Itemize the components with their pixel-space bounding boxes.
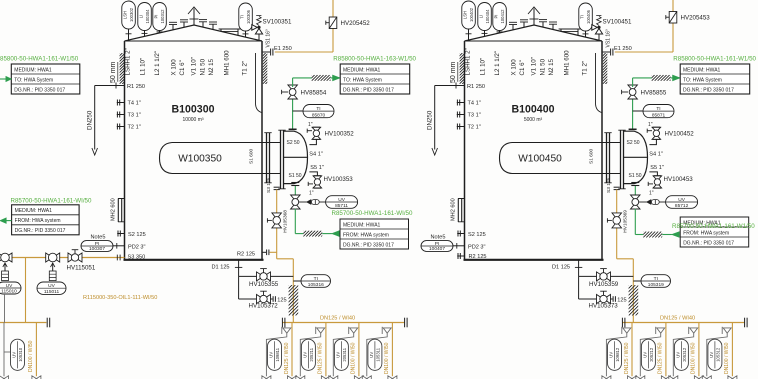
svg-text:100302: 100302: [129, 7, 134, 22]
svg-text:TI: TI: [580, 15, 585, 19]
penetration hatching on drop: [598, 285, 666, 316]
svg-text:L1 10": L1 10": [480, 58, 487, 76]
svg-text:125: 125: [617, 298, 626, 304]
svg-text:DN125 / WI50: DN125 / WI50: [318, 342, 324, 374]
pressure indicator PI 100412: [493, 3, 507, 31]
drain drop UV 109811: [291, 323, 293, 377]
svg-text:R2 125: R2 125: [237, 252, 255, 258]
oil drop line: [276, 190, 278, 259]
svg-text:VS1 16°: VS1 16°: [265, 29, 271, 47]
svg-text:R85700-50-HWA1-161-W1/50: R85700-50-HWA1-161-W1/50: [672, 223, 755, 230]
svg-text:R2 125: R2 125: [469, 254, 487, 260]
svg-text:LSHH1 2": LSHH1 2": [465, 48, 472, 75]
valve HV105359: [579, 275, 597, 277]
drain valve: [0, 376, 9, 379]
drain valve: [669, 376, 678, 379]
nozzle T4: [457, 102, 465, 104]
safety valve SV100351: [258, 34, 260, 40]
nozzle T2: [457, 126, 465, 128]
temperature indicator TI 105319: [633, 280, 641, 282]
svg-text:MH2 600: MH2 600: [451, 198, 457, 221]
valve HV105372 with 125 flange: [238, 276, 240, 299]
drain valve: [354, 376, 363, 379]
svg-text:HV85855: HV85855: [641, 90, 667, 97]
penetration hatching: [306, 75, 336, 81]
roof nozzle stub: [172, 25, 174, 30]
hand valve HV115051: [68, 253, 82, 262]
shutoff valve bubble UV 85711: [326, 196, 358, 209]
valve HV205452: [329, 17, 337, 29]
svg-text:TI: TI: [314, 276, 318, 282]
roof nozzle stub: [212, 24, 214, 29]
svg-text:S2 125: S2 125: [468, 232, 486, 238]
nozzle S1 50 feed (green): [291, 182, 299, 184]
level indicator LI 100404: [478, 3, 492, 31]
svg-text:100307: 100307: [89, 246, 105, 252]
svg-text:T4 1": T4 1": [468, 101, 481, 107]
svg-text:T1 2": T1 2": [581, 61, 588, 76]
svg-text:S1 50: S1 50: [289, 173, 302, 179]
svg-text:MH2 600: MH2 600: [111, 198, 117, 221]
svg-text:85712: 85712: [675, 203, 689, 209]
svg-text:S1 50: S1 50: [629, 173, 642, 179]
svg-text:TI: TI: [654, 276, 658, 282]
svg-text:10000 m³: 10000 m³: [182, 117, 203, 123]
drain line with UV 105310: [3, 323, 5, 377]
svg-text:DN250: DN250: [86, 110, 93, 130]
svg-text:105316: 105316: [308, 282, 324, 288]
svg-text:DN125 / WI40: DN125 / WI40: [660, 316, 695, 322]
svg-text:N2 15: N2 15: [208, 58, 215, 75]
svg-text:205311: 205311: [342, 347, 347, 361]
drain valve: [628, 376, 637, 379]
svg-text:R85700-50-HWA1-161-WI/50: R85700-50-HWA1-161-WI/50: [332, 210, 413, 217]
svg-text:T2 1": T2 1": [468, 125, 481, 131]
svg-text:DN100 / WI50: DN100 / WI50: [384, 342, 390, 374]
svg-text:DN125 / WI50: DN125 / WI50: [624, 342, 630, 374]
HWA supply line (green): [294, 209, 296, 234]
svg-text:D1 125: D1 125: [212, 264, 230, 270]
svg-text:HV100453: HV100453: [664, 176, 694, 183]
liner hatching left + 50 mm note: [429, 53, 494, 84]
penetration hatching: [297, 231, 327, 237]
svg-text:R115000-350-OIL1-111-WI/50: R115000-350-OIL1-111-WI/50: [83, 295, 157, 301]
nozzle R1 250 with DN250 line: [95, 85, 125, 87]
svg-text:SV100451: SV100451: [603, 19, 632, 26]
svg-text:TI: TI: [656, 106, 660, 112]
svg-text:DN100 / WI50: DN100 / WI50: [691, 342, 697, 374]
svg-text:R85800-50-HWA1-163-W1/50: R85800-50-HWA1-163-W1/50: [333, 56, 416, 63]
roof nozzle stub: [552, 24, 554, 29]
svg-text:HV105355: HV105355: [249, 281, 279, 288]
vent stack with open vent arrow: [533, 9, 535, 26]
svg-text:125: 125: [277, 298, 286, 304]
valve HV105355: [239, 275, 257, 277]
svg-text:R1 250: R1 250: [467, 84, 485, 90]
drain valve: [262, 376, 271, 379]
tank B100300 roof: [125, 25, 263, 41]
svg-text:HV85854: HV85854: [301, 90, 327, 97]
svg-text:T4 1": T4 1": [128, 101, 141, 107]
svg-text:MEDIUM: HWA1: MEDIUM: HWA1: [343, 67, 381, 73]
svg-text:FROM: HWA system: FROM: HWA system: [15, 218, 61, 224]
svg-text:PD2 3": PD2 3": [128, 244, 146, 250]
vapour line to HV205452: [275, 51, 333, 53]
svg-text:UV: UV: [675, 352, 680, 358]
exchanger head: [624, 131, 648, 183]
drain valve: [321, 376, 330, 379]
svg-text:DN125 / WI50: DN125 / WI50: [284, 342, 290, 374]
svg-text:1": 1": [648, 122, 653, 128]
nozzle T3: [117, 114, 125, 116]
svg-text:X 100: X 100: [171, 59, 178, 76]
svg-text:S1 600: S1 600: [589, 148, 595, 164]
svg-text:100306: 100306: [246, 9, 251, 24]
flow arrow into TO box: [333, 75, 340, 81]
svg-text:UV: UV: [642, 352, 647, 358]
exchanger head flange: [621, 131, 624, 189]
nozzle S2 125: [117, 233, 124, 235]
svg-text:109811: 109811: [275, 347, 280, 361]
svg-text:S4 1": S4 1": [649, 151, 663, 157]
roof nozzle stub: [542, 22, 544, 27]
svg-text:5000 m³: 5000 m³: [524, 117, 543, 123]
drain drop with valve: [35, 323, 37, 377]
svg-text:100412: 100412: [500, 9, 505, 24]
svg-text:205211: 205211: [309, 347, 314, 361]
drain valve: [362, 376, 371, 379]
svg-text:L2 1 1/2": L2 1 1/2": [154, 51, 161, 76]
exchanger head: [284, 131, 308, 183]
svg-text:85711: 85711: [335, 203, 348, 209]
svg-text:DG.NR.: PID 3350 017: DG.NR.: PID 3350 017: [15, 228, 66, 234]
valve UV 85712 inlet valve: [631, 195, 641, 209]
svg-text:S5 1": S5 1": [310, 165, 324, 171]
svg-text:1": 1": [308, 122, 313, 128]
svg-text:HV100352: HV100352: [325, 131, 355, 138]
svg-text:DN125 / WI50: DN125 / WI50: [658, 342, 664, 374]
valve HV100452 at S4: [649, 139, 656, 145]
svg-text:L1 10": L1 10": [140, 58, 147, 76]
pressure indicator PI 100312: [153, 3, 167, 31]
svg-text:DG.NR.: PID 3350 017: DG.NR.: PID 3350 017: [343, 87, 394, 93]
valve HV100352 at S4: [309, 139, 316, 145]
svg-text:UV: UV: [678, 197, 685, 203]
vapour line to HV205453: [615, 51, 673, 53]
svg-text:HV115051: HV115051: [67, 265, 96, 272]
valve HV85855 on HWA return: [632, 97, 634, 128]
svg-text:MEDIUM: HWA1: MEDIUM: HWA1: [14, 67, 52, 73]
svg-text:T3 1": T3 1": [468, 113, 481, 119]
svg-text:85800-50-HWA1-161-W1/50: 85800-50-HWA1-161-W1/50: [0, 56, 79, 63]
svg-text:S3 125: S3 125: [606, 177, 612, 193]
svg-text:FROM: HWA system: FROM: HWA system: [683, 230, 729, 236]
svg-text:DG.NR.: PID 3350 017: DG.NR.: PID 3350 017: [683, 87, 734, 93]
svg-text:L2 1 1/2": L2 1 1/2": [494, 51, 501, 76]
TO HWA System box: [340, 64, 410, 94]
svg-text:DN100 / WI50: DN100 / WI50: [28, 340, 34, 372]
svg-text:UV: UV: [335, 352, 340, 358]
drain drop UV 205211: [325, 323, 327, 377]
svg-text:D1 125: D1 125: [552, 264, 570, 270]
svg-text:E1 250: E1 250: [614, 46, 632, 52]
svg-text:MH1 600: MH1 600: [564, 50, 571, 76]
svg-text:MEDIUM: HWA1: MEDIUM: HWA1: [343, 222, 381, 228]
manhole MH1 600 on roof: [559, 29, 581, 35]
heat exchanger W100450 shell: [512, 143, 621, 174]
shutoff valve bubble UV 115011: [37, 282, 66, 294]
flow arrow out of FROM box: [332, 231, 339, 237]
svg-text:HV205452: HV205452: [341, 20, 371, 27]
tank B100400 roof: [465, 25, 603, 41]
level switch LSH 100302: [122, 1, 136, 29]
nozzle S3 350 with oil line: [0, 257, 125, 259]
temperature indicator TI 85870: [293, 110, 303, 112]
drain valve: [32, 376, 41, 379]
svg-text:S2 125: S2 125: [128, 232, 146, 238]
flow arrow into TO box: [673, 75, 680, 81]
temperature indicator TI 100306: [239, 3, 253, 31]
svg-text:R85700-50-HWA1-161-WI/50: R85700-50-HWA1-161-WI/50: [11, 197, 92, 204]
level indicator LI 100304: [138, 3, 152, 31]
HWA supply line (green): [634, 209, 636, 235]
svg-text:85871: 85871: [652, 112, 666, 118]
svg-text:V1 10": V1 10": [531, 57, 538, 75]
drain valve: [636, 376, 645, 379]
drain drop UV 105312: [731, 323, 733, 377]
roof nozzle stub: [523, 22, 525, 27]
svg-text:S3 125: S3 125: [266, 177, 272, 193]
svg-text:UV: UV: [709, 352, 714, 358]
svg-text:TO: HWA System: TO: HWA System: [683, 77, 722, 83]
FROM HWA system box (left edge): [12, 205, 80, 235]
drain drop UV 205312: [698, 323, 700, 377]
svg-text:TO: HWA System: TO: HWA System: [343, 77, 382, 83]
svg-text:109812: 109812: [615, 347, 620, 362]
drain valve: [329, 376, 338, 379]
svg-text:HV105372: HV105372: [249, 303, 279, 310]
penetration hatching: [646, 75, 676, 81]
svg-text:R85800-50-HWA1-161-W1/50: R85800-50-HWA1-161-W1/50: [673, 56, 756, 63]
svg-text:MEDIUM: HWA1: MEDIUM: HWA1: [15, 208, 53, 214]
svg-text:T3 1": T3 1": [128, 113, 141, 119]
drain header DN125 / WI40: [622, 322, 744, 324]
svg-text:S4 1": S4 1": [309, 151, 323, 157]
nozzle R1 250 with DN250 line: [435, 85, 465, 87]
svg-text:105319: 105319: [648, 282, 664, 288]
svg-text:X 100: X 100: [511, 59, 518, 76]
penetration hatching on drop: [258, 285, 326, 316]
svg-text:100402: 100402: [469, 7, 474, 22]
svg-text:LSHH1 2": LSHH1 2": [125, 48, 132, 75]
drain valve: [702, 376, 711, 379]
actuator for UV 115010: [4, 263, 6, 271]
svg-text:UV: UV: [48, 283, 55, 289]
svg-text:N2 15: N2 15: [548, 58, 555, 75]
oil drop line: [616, 190, 618, 259]
drain valve: [296, 376, 305, 379]
svg-text:85870: 85870: [312, 112, 326, 118]
svg-text:DG.NR.: PID 3350 017: DG.NR.: PID 3350 017: [343, 242, 394, 248]
drain valve: [288, 376, 297, 379]
svg-text:SV100351: SV100351: [263, 19, 292, 26]
svg-text:100304: 100304: [145, 9, 150, 24]
svg-text:MH1 600: MH1 600: [224, 50, 231, 76]
green arrow out of box (left): [6, 220, 12, 222]
svg-text:1": 1": [649, 191, 654, 197]
svg-text:MEDIUM: HWA1: MEDIUM: HWA1: [683, 67, 721, 73]
roof nozzle stub: [202, 22, 204, 27]
svg-text:S2 50: S2 50: [287, 140, 300, 146]
svg-text:LI: LI: [479, 15, 484, 19]
nozzle T3: [457, 114, 465, 116]
temperature indicator TI 85871: [633, 110, 643, 112]
svg-text:HV105369: HV105369: [622, 210, 628, 233]
svg-text:UV: UV: [609, 352, 614, 358]
valve HV105373 with 125 flange: [578, 276, 580, 299]
svg-text:S5 1": S5 1": [650, 165, 664, 171]
svg-text:UV: UV: [12, 352, 17, 358]
inner liner right wall: [256, 53, 262, 113]
svg-text:N1 50: N1 50: [199, 58, 206, 75]
svg-text:W100350: W100350: [178, 154, 222, 165]
nozzle S1 50 feed (green): [631, 182, 639, 184]
svg-text:50 mm: 50 mm: [110, 61, 117, 83]
svg-text:DG.NR.: PID 3350 017: DG.NR.: PID 3350 017: [14, 87, 65, 93]
svg-text:FROM: HWA system: FROM: HWA system: [343, 232, 389, 238]
level switch LSH 100402: [462, 1, 476, 29]
nozzle E1 250: [262, 51, 270, 53]
drain drop UV 109812: [631, 323, 633, 377]
svg-text:HV105359: HV105359: [589, 281, 619, 288]
svg-text:115011: 115011: [44, 289, 60, 295]
shutoff valve bubble UV 105310: [11, 339, 25, 370]
svg-text:UV: UV: [6, 283, 13, 289]
svg-text:Note5: Note5: [431, 235, 446, 241]
tank B100400 shell: [464, 41, 466, 260]
svg-text:TI: TI: [316, 106, 320, 112]
svg-text:TI: TI: [240, 15, 245, 19]
FROM HWA system box: [340, 219, 409, 249]
svg-text:HV100452: HV100452: [665, 131, 695, 138]
svg-text:DN100 / WI50: DN100 / WI50: [351, 342, 357, 374]
svg-text:C1 6": C1 6": [179, 60, 186, 75]
svg-text:PI: PI: [154, 15, 159, 19]
svg-text:VS1 16°: VS1 16°: [605, 29, 611, 47]
svg-text:105311: 105311: [375, 347, 380, 361]
drain valve: [602, 376, 611, 379]
svg-text:S2 50: S2 50: [627, 140, 640, 146]
shutoff valve bubble UV 115010: [0, 282, 21, 294]
nozzle T4: [117, 102, 125, 104]
svg-text:205312: 205312: [682, 347, 687, 362]
nozzle T2: [117, 126, 125, 128]
shutoff valve bubble UV 85712: [666, 196, 698, 209]
drain drop UV 205212: [665, 323, 667, 377]
vent stack with open vent arrow: [193, 9, 195, 26]
svg-text:100407: 100407: [429, 246, 445, 252]
svg-text:105312: 105312: [715, 347, 720, 362]
svg-text:S3 350: S3 350: [128, 254, 146, 260]
valve on oil line: [46, 253, 60, 262]
svg-text:UV: UV: [338, 197, 345, 203]
temperature indicator TI 105316: [293, 280, 301, 282]
svg-text:100404: 100404: [485, 9, 490, 24]
svg-text:PI: PI: [494, 15, 499, 19]
svg-text:PI: PI: [95, 241, 100, 247]
svg-text:115010: 115010: [1, 289, 17, 295]
nozzle E1 250: [602, 51, 610, 53]
svg-text:UV: UV: [269, 352, 274, 358]
svg-text:1": 1": [309, 191, 314, 197]
svg-text:LI: LI: [139, 15, 144, 19]
svg-text:50 mm: 50 mm: [450, 61, 457, 83]
safety valve SV100451: [598, 34, 600, 40]
manhole MH2 600: [458, 199, 461, 223]
roof nozzle stub: [512, 25, 514, 30]
svg-text:V1 10": V1 10": [191, 57, 198, 75]
drain valve: [388, 376, 397, 379]
TO HWA System box (left edge): [11, 64, 80, 94]
svg-text:T2 1": T2 1": [128, 125, 141, 131]
temperature indicator TI 100406: [579, 3, 593, 31]
branch to drain header: [25, 258, 27, 323]
tank B100300 shell: [124, 41, 126, 260]
drain valve: [694, 376, 703, 379]
drain header DN125 / WI40: [282, 322, 404, 324]
svg-text:DN250: DN250: [426, 110, 433, 130]
svg-text:205212: 205212: [649, 347, 654, 362]
svg-text:HV100353: HV100353: [324, 176, 354, 183]
drain header stub (bottom left corner): [0, 322, 46, 324]
svg-text:T1 2": T1 2": [241, 61, 248, 76]
FROM HWA system box: [680, 217, 749, 247]
valve HV105368: [272, 213, 282, 228]
svg-text:N1 50: N1 50: [539, 58, 546, 75]
exchanger head flange: [281, 131, 284, 189]
green line with arrow into box: [0, 78, 6, 80]
svg-text:HV105368: HV105368: [282, 210, 288, 233]
actuator for UV 115011: [52, 263, 54, 271]
svg-text:DN125 / WI40: DN125 / WI40: [320, 316, 355, 322]
svg-text:DN100 / WI50: DN100 / WI50: [724, 342, 730, 374]
drain valve: [661, 376, 670, 379]
svg-text:100312: 100312: [160, 9, 165, 24]
svg-text:100406: 100406: [586, 9, 591, 24]
flow arrow out of FROM box: [672, 232, 679, 238]
valve HV205453: [669, 12, 677, 24]
valve HV105369: [612, 213, 622, 228]
svg-text:TO: HWA System: TO: HWA System: [14, 77, 53, 83]
svg-text:HV105373: HV105373: [589, 303, 619, 310]
penetration hatching: [637, 232, 667, 238]
svg-text:UV: UV: [302, 352, 307, 358]
svg-text:LSH: LSH: [123, 11, 128, 19]
svg-text:PD2 3": PD2 3": [468, 244, 486, 250]
svg-text:W100450: W100450: [518, 154, 562, 165]
inner liner right wall: [596, 53, 602, 113]
svg-text:C1 6": C1 6": [519, 60, 526, 75]
HWA return line to header (green): [292, 78, 294, 87]
liner hatching right: [572, 53, 637, 84]
valve HV85854 on HWA return: [292, 97, 294, 128]
svg-text:B100400: B100400: [511, 104, 554, 116]
svg-text:PI: PI: [435, 241, 440, 247]
svg-text:E1 250: E1 250: [274, 46, 292, 52]
drain drop UV 205311: [358, 323, 360, 377]
roof nozzle stub: [183, 22, 185, 27]
svg-text:Note5: Note5: [91, 235, 106, 241]
